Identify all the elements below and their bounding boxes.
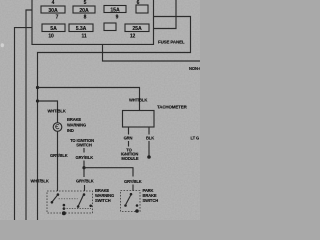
svg-text:4: 4 [52,0,55,6]
svg-text:15A: 15A [110,8,120,14]
svg-text:5A: 5A [50,26,57,32]
svg-text:WHT/BLK: WHT/BLK [31,178,49,183]
right extra contact [89,205,92,208]
wire continues into box [84,185,86,191]
left switch bottom contact [51,201,54,204]
right switch lever [78,195,83,206]
svg-text:SWITCH: SWITCH [95,198,111,203]
fuse panel outline [32,0,154,44]
wire from junction down into brake warning switch [83,168,85,177]
tachometer BLK wire [148,127,150,135]
wire B: panel right exit y=28.5 up to top edge at x=176 [154,0,177,29]
svg-text:10: 10 [48,34,54,40]
svg-text:WHT/BLK: WHT/BLK [48,108,66,113]
svg-text:FUSE PANEL: FUSE PANEL [158,40,185,45]
wire E: panel left exit y=27.6 down left column x=14.5 [15,28,33,220]
park brake switch dashed box [121,191,141,212]
park switch lever [126,195,131,204]
svg-text:5.3A: 5.3A [76,26,87,32]
ground dot below box [62,211,66,215]
svg-text:TACHOMETER: TACHOMETER [157,105,188,110]
wire from ignition switch label down [83,148,85,153]
svg-text:30A: 30A [48,8,58,14]
svg-text:WHT/BLK: WHT/BLK [129,98,147,103]
mechanical linkage dashed [59,198,78,200]
svg-text:MODULE: MODULE [121,156,139,161]
wire BLK lower segment [148,141,150,156]
svg-text:WARNING: WARNING [67,123,86,128]
svg-text:LT G: LT G [191,136,200,141]
svg-text:5: 5 [84,0,87,6]
svg-text:GRY/BLK: GRY/BLK [76,178,94,183]
right switch top contact [83,193,86,196]
svg-text:SWITCH: SWITCH [143,198,159,203]
dashed link bottom [64,208,91,210]
white speck artifact [1,43,4,47]
wire C: panel bottom exit x=102.5 down right to edge [103,44,201,61]
park ground dot [135,209,139,213]
junction node on wire A at y=87.5 [36,86,39,89]
wire A: panel right exit y=16.5, around right, down left at x=37.5 [38,17,191,221]
tachometer box [123,111,155,128]
right switch bottom contact [77,205,80,208]
svg-text:8: 8 [84,15,87,21]
wire continues to junction [83,161,85,168]
fuse 20A box [73,6,95,14]
svg-text:GRY/BLK: GRY/BLK [124,179,142,184]
junction node on wire A at y=101 [36,99,39,102]
fuse 25A box [125,24,149,32]
park switch top contact [130,193,133,196]
wire to park brake switch: right then down [84,168,133,177]
left switch lever [52,195,57,202]
brake warning indicator lamp [53,123,62,132]
svg-text:11: 11 [81,34,86,40]
brake warning switch dashed box [47,191,93,213]
park switch bottom contact [124,204,127,207]
svg-text:NON-C: NON-C [189,66,200,71]
svg-text:GRY/BLK: GRY/BLK [76,155,94,160]
empty fuse box row2 [104,23,116,31]
mid contacts [63,204,66,207]
wire continues into park brake switch [132,185,134,192]
svg-text:BLK: BLK [146,135,154,140]
svg-text:9: 9 [116,15,119,21]
wire from lamp down to brake warning switch [57,131,59,191]
wire to tachometer: horizontal y=87.5 then down x=139.5 [38,88,140,111]
fuse 30A box [41,6,65,14]
svg-text:IND: IND [67,128,74,133]
park switch right contact [136,204,139,207]
ground splice dot on BLK wire [147,155,151,159]
svg-text:7: 7 [56,15,59,21]
wire to brake warning lamp: right then down x=57.5 [38,101,58,123]
tachometer GRN wire [128,127,130,135]
svg-text:BRAKE: BRAKE [67,117,81,122]
fuse 5.3A box [69,24,93,32]
empty fuse box row1 [136,5,148,13]
svg-text:GRY/BLK: GRY/BLK [50,153,68,158]
wire D: panel left exit y=10 down left column x=26 [26,10,32,220]
svg-text:12: 12 [130,34,136,40]
svg-text:GRN: GRN [124,135,133,140]
fuse 5A box [42,24,65,32]
fuse 15A box [104,6,126,14]
svg-text:25A: 25A [132,26,142,32]
svg-text:SWITCH: SWITCH [76,142,92,147]
junction node ignition/park [82,166,85,169]
left switch top contact [57,193,60,196]
wire GRN lower segment [128,141,130,147]
svg-text:20A: 20A [79,8,89,14]
